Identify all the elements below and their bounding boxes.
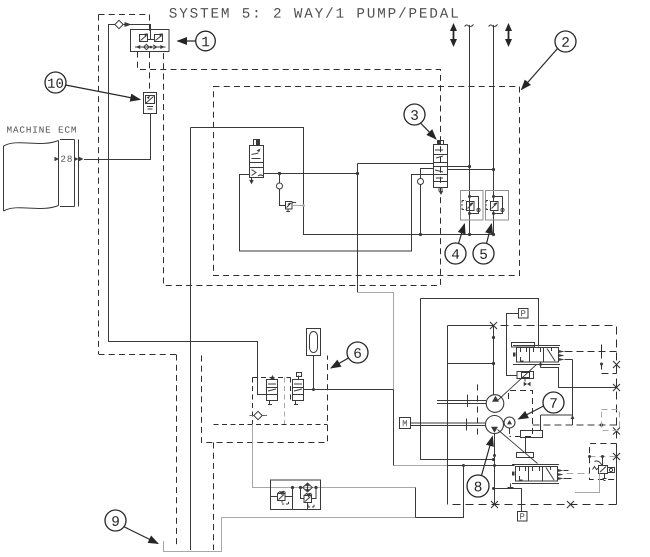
valve3 left port wire with orifice	[421, 169, 434, 235]
leader arrow 2	[522, 49, 558, 90]
gray dashed vertical inside 6	[284, 378, 286, 425]
pilot valve pair 4/5 outer box	[461, 191, 509, 221]
pedal valve A	[267, 377, 278, 405]
boundary dashed box	[448, 326, 617, 505]
inner dashed pilot box in 6	[214, 378, 328, 425]
callout circle 4	[445, 243, 466, 264]
ECM block	[4, 140, 79, 212]
leader arrow 5	[487, 224, 492, 244]
x mark on boundary at aux pilot	[613, 453, 620, 460]
M motor box	[400, 418, 411, 429]
double arrow flow marks top	[450, 23, 512, 47]
supply line to pump	[493, 326, 495, 395]
arrowhead into valve 1 feed	[125, 22, 132, 27]
supply wire to valve3	[358, 163, 434, 165]
callout circle 7	[543, 392, 564, 413]
gray stub from R1 to x303	[292, 205, 304, 207]
bottom-center relief/filter box	[271, 480, 321, 510]
small pilot pump circle	[504, 417, 515, 428]
aux pilot gray dashed wire	[590, 456, 617, 458]
pressure reducing valve V1	[250, 140, 264, 182]
inner dashed pump group edge	[477, 385, 479, 435]
T node vertical x357 down to gray corner	[357, 164, 359, 293]
DCV2 directional valve	[512, 453, 559, 484]
orifice diamond in pedal group	[250, 415, 268, 417]
callout circle 9	[105, 510, 126, 531]
linkage diagonal DCV2 to pump	[498, 430, 538, 464]
dashed harness box L	[99, 15, 177, 549]
dashed pilot pump enclosure	[509, 391, 533, 437]
aux valve dashed enclosure	[590, 444, 617, 480]
relief valve R1	[286, 202, 297, 212]
wire valve B right to down	[304, 389, 394, 391]
break squiggle	[465, 25, 474, 27]
dashed box B (item 2)	[214, 87, 520, 276]
leader arrow 3	[421, 123, 437, 139]
long supply line B	[493, 25, 495, 235]
drive shafts	[411, 395, 487, 431]
wire DCV1 port C down	[572, 360, 574, 426]
wire ECM pin28 to valve 10	[84, 114, 151, 160]
callout circle 3	[404, 104, 425, 125]
pump circle 1	[486, 395, 504, 413]
DCV1 pilot relief below	[517, 372, 534, 382]
gray return wire	[358, 293, 394, 390]
valve3 right ports	[448, 167, 494, 170]
pilot dashed wire to gray box	[533, 424, 617, 426]
long supply line A	[469, 25, 471, 235]
pump circle 2	[486, 416, 504, 434]
pedal valve B	[293, 373, 304, 405]
pump down line to boundary	[494, 434, 496, 505]
leader arrow 10	[66, 85, 141, 100]
wire DCV1 port B to boundary	[541, 368, 617, 388]
leader arrow 8	[482, 437, 493, 476]
wire V1 bottom-right to T at x357	[264, 173, 358, 175]
net N1 rectangle wires	[191, 128, 494, 235]
leader arrow 7	[519, 406, 544, 419]
callout circle 6	[347, 342, 368, 363]
callout circle 10	[45, 72, 66, 93]
dark bottom jog to assembly	[416, 488, 464, 518]
tank mark DCV2	[508, 484, 514, 488]
wire W1 from filter down and across	[109, 25, 268, 395]
pedal capsule	[307, 329, 321, 356]
wire capsule down	[313, 356, 315, 390]
leader arrow 4	[459, 224, 465, 244]
wire V1 drain loop to valve3	[240, 175, 434, 252]
pedal group dashed box 6	[202, 356, 328, 443]
gray bottom U drain	[164, 518, 416, 552]
wire pilot damper link	[541, 415, 573, 431]
pin 28 label	[61, 156, 65, 162]
callout circle 8	[467, 475, 489, 497]
linkage diagonal DCV1 to pump	[498, 365, 537, 401]
leader arrow 6	[331, 358, 349, 368]
DCV1 bottom port arrow	[540, 362, 542, 368]
callout circle 5	[473, 243, 494, 264]
dark dashed from DCV1 right to sub box	[566, 342, 617, 374]
supply wire to assembly and DCV1	[421, 299, 539, 460]
reducing valve 5	[486, 197, 503, 214]
MACHINE ECM label	[7, 126, 11, 132]
solenoid valve box 1	[131, 30, 170, 52]
leader arrow 9	[125, 527, 159, 544]
wire: top filter line	[109, 25, 151, 31]
P box bottom	[518, 512, 528, 522]
proportional valve 3	[434, 141, 448, 192]
solenoid valve box 10	[144, 93, 157, 114]
P box top	[519, 309, 529, 319]
x marks on boundary	[490, 322, 620, 508]
check diamond	[115, 20, 123, 28]
DCV2 pilot damper rect	[521, 431, 543, 438]
long wire x=190	[190, 128, 192, 551]
dashed box A	[138, 52, 441, 286]
small pump port stub	[509, 428, 511, 434]
title	[169, 8, 176, 18]
wire DCV2 left feed	[448, 465, 515, 467]
gray wire from valve A area down	[253, 425, 416, 488]
gray dashed from DCV2 right	[567, 473, 590, 475]
leader arrow 1	[178, 40, 196, 42]
junction dot	[278, 172, 281, 175]
callout circle 2	[555, 31, 576, 52]
bowtie restrictor	[524, 382, 531, 387]
gray dashed pilot box right	[602, 410, 620, 431]
aux relief valve	[593, 457, 615, 481]
orifice node circle	[279, 174, 281, 184]
reducing valve 4	[462, 197, 479, 214]
bottom dashed vertical x213	[213, 443, 215, 551]
DCV1 directional valve	[512, 343, 561, 365]
callout circle 1	[196, 31, 216, 51]
